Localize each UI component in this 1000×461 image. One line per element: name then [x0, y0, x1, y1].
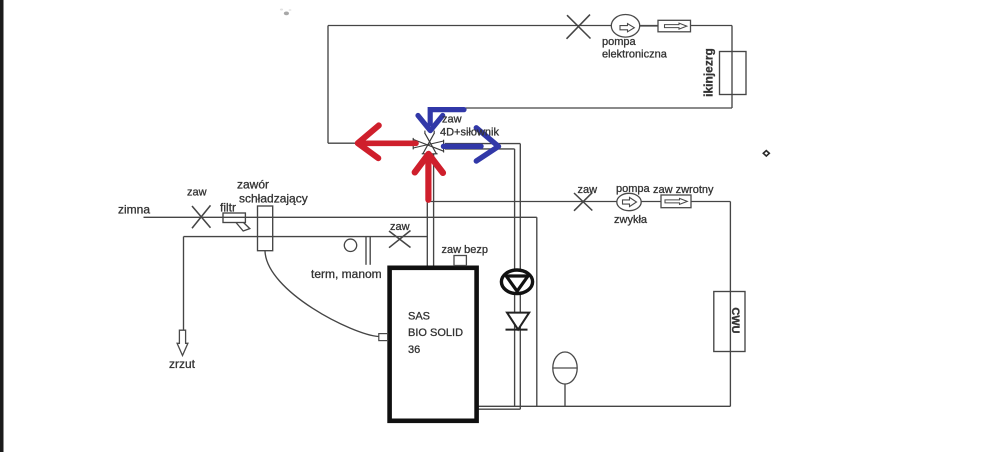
svg-text:BIO SOLID: BIO SOLID — [408, 327, 463, 339]
svg-text:SAS: SAS — [408, 311, 430, 323]
svg-text:zaw: zaw — [187, 187, 207, 199]
svg-text:CWU: CWU — [729, 307, 741, 333]
svg-text:4D+siłownik: 4D+siłownik — [440, 127, 499, 139]
svg-text:term, manom: term, manom — [311, 267, 382, 281]
svg-text:zwykła: zwykła — [614, 214, 648, 226]
svg-text:zrzut: zrzut — [169, 357, 196, 371]
svg-text:elektroniczna: elektroniczna — [602, 49, 668, 61]
svg-text:filtr: filtr — [220, 201, 236, 215]
svg-text:zawór: zawór — [237, 178, 269, 192]
svg-text:pompa: pompa — [616, 183, 651, 195]
svg-text:zaw zwrotny: zaw zwrotny — [653, 184, 714, 196]
svg-text:zaw bezp: zaw bezp — [442, 244, 488, 256]
svg-text:zaw: zaw — [578, 184, 598, 196]
svg-text:zaw: zaw — [442, 114, 462, 126]
svg-text:schładzający: schładzający — [239, 192, 308, 206]
svg-text:ikinjezrg: ikinjezrg — [702, 48, 716, 97]
svg-text:zimna: zimna — [118, 203, 150, 217]
svg-text:36: 36 — [408, 344, 420, 356]
svg-text:pompa: pompa — [602, 36, 637, 48]
svg-text:zaw: zaw — [390, 221, 410, 233]
